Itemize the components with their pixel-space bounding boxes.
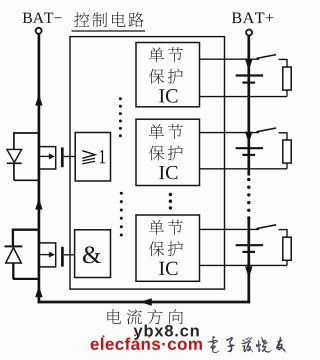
- label 电流方向 (current direction): [107, 309, 183, 324]
- wire Q1 gate to logic gate: [64, 156, 75, 158]
- single-cell protection IC U2: [136, 119, 200, 185]
- wire cell1 bottom sense line: [200, 96, 288, 98]
- resistor R1 (balance resistor): [283, 67, 291, 90]
- watermark elecfans.com logo: [91, 337, 202, 349]
- ellipsis dots on BAT+ wire (more cells): [247, 178, 250, 220]
- current arrow down on BAT+ wire below cell B3: [245, 267, 252, 279]
- watermark ybx8.cn: [134, 324, 199, 339]
- watermark 电子发烧友: [208, 336, 286, 352]
- wire switch S1 contact to resistor R1: [279, 59, 287, 67]
- label BAT-: [23, 13, 62, 23]
- battery cell B2 negative plate: [242, 154, 255, 156]
- wire BAT+ vertical lower: [247, 219, 250, 303]
- leader underline of 控制电路: [72, 30, 146, 32]
- single-cell protection IC U3: [136, 215, 200, 281]
- diode D1 branch wires: [14, 133, 39, 180]
- switch S3 (balance switch, open): [257, 225, 277, 229]
- control circuit box: [70, 37, 225, 290]
- current arrow left on bottom wire: [140, 298, 152, 305]
- wire Q2 gate to logic gate: [64, 254, 75, 256]
- ellipsis dot column upper (more IC connections): [119, 97, 122, 137]
- wire cell2 top sense line: [200, 132, 260, 134]
- MOSFET Q1 (discharge switch): [39, 147, 62, 169]
- label BAT+: [232, 12, 273, 23]
- ellipsis dot column lower (more IC connections): [120, 192, 123, 237]
- wire resistor R3 to cell3 bottom line: [286, 260, 288, 265]
- wire switch S3 contact to resistor R3: [279, 230, 287, 238]
- wire cell3 top sense line: [200, 228, 260, 230]
- wire BAT- vertical: [38, 34, 41, 303]
- wire cell3 bottom sense line: [200, 264, 288, 266]
- current arrow up on BAT- wire (top): [35, 94, 42, 106]
- label 控制电路 (control circuit): [74, 12, 144, 27]
- wire switch S2 contact to resistor R2: [279, 133, 287, 140]
- wire resistor R1 to cell1 bottom line: [286, 90, 288, 97]
- current arrow up on BAT- wire (bottom): [35, 286, 42, 298]
- OR gate (>=1): [75, 133, 110, 182]
- wire bottom horizontal: [38, 301, 251, 304]
- wire cell1 top sense line: [200, 58, 260, 60]
- decorative dots of elecfans logo: [103, 334, 151, 337]
- battery cell B3 negative plate: [242, 251, 255, 253]
- current arrow down on BAT+ wire above cell B2: [245, 132, 252, 144]
- battery cell B1 positive plate: [236, 74, 264, 76]
- wire cell2 bottom sense line: [200, 168, 288, 170]
- ellipsis dots between U2 and U3: [169, 193, 172, 210]
- terminal BAT+: [246, 30, 252, 36]
- diode D2 branch wires: [13, 230, 39, 279]
- wire BAT+ vertical upper: [247, 36, 250, 176]
- resistor R3 (balance resistor): [283, 237, 291, 260]
- battery cell B2 positive plate: [236, 147, 264, 149]
- AND gate (&): [75, 230, 111, 278]
- diode D2 (points up): [5, 246, 23, 263]
- battery cell B3 positive plate: [236, 244, 264, 246]
- diode D1 (points down): [7, 149, 22, 163]
- MOSFET Q2 (charge switch): [39, 243, 63, 267]
- battery cell B1 negative plate: [242, 81, 255, 83]
- resistor R2 (balance resistor): [283, 140, 291, 163]
- current arrow down on BAT+ wire above cell B1: [245, 59, 252, 71]
- switch S1 (balance switch, open): [257, 55, 277, 59]
- wire resistor R2 to cell2 bottom line: [286, 163, 288, 169]
- current arrow up on BAT- wire (middle): [35, 198, 42, 210]
- single-cell protection IC U1: [136, 43, 200, 107]
- switch S2 (balance switch, open): [257, 128, 277, 132]
- terminal BAT-: [36, 28, 42, 34]
